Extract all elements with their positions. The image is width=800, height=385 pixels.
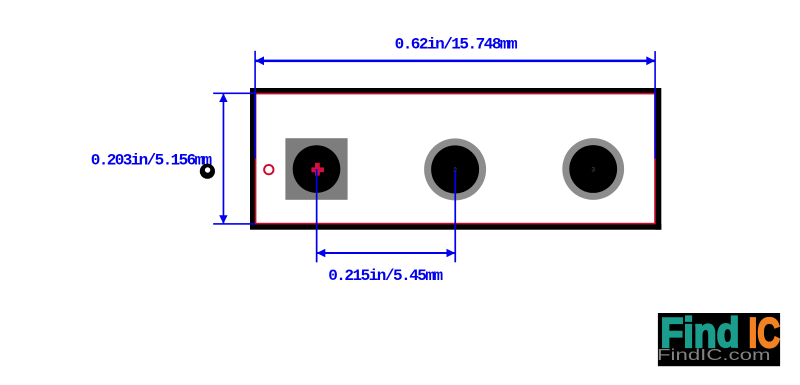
pad pitch arrow left [317, 249, 326, 258]
svg-text:0.62in/15.748mm: 0.62in/15.748mm [395, 36, 518, 54]
top dimension line [256, 60, 655, 63]
pad 3 (round) [562, 138, 624, 200]
courtyard red rectangle [256, 94, 655, 224]
pad pitch dimension line [317, 252, 456, 254]
top dimension: extension line right [654, 51, 656, 158]
top dimension: extension line left [254, 51, 256, 159]
pad pitch arrow right [447, 249, 456, 258]
svg-text:0.215in/5.45mm: 0.215in/5.45mm [328, 267, 443, 285]
left dimension: extension line bottom [213, 223, 255, 225]
top dimension arrow right [646, 56, 655, 65]
svg-text:FindIC.com: FindIC.com [657, 347, 771, 364]
origin marker donut [200, 164, 215, 179]
pad 2 (round) [424, 138, 486, 200]
svg-text:0.203in/5.156mm: 0.203in/5.156mm [91, 152, 213, 170]
top dimension arrow left [255, 56, 264, 65]
polarity cross on pad 1 [311, 163, 324, 176]
pad 1 (square, positive) [285, 138, 347, 200]
left dimension arrow bottom [219, 215, 227, 224]
left dimension arrow top [219, 93, 227, 102]
left dimension line [223, 93, 225, 224]
pin 1 indicator red circle [264, 165, 273, 174]
left dimension: extension line top [213, 93, 256, 95]
pad pitch dimension: extension line from pad 2 [454, 169, 456, 262]
component outline black border [250, 88, 661, 230]
FindIC logo black background [658, 313, 780, 366]
svg-text:3: 3 [591, 166, 595, 173]
pad pitch dimension: extension line from pad 1 [316, 169, 318, 262]
